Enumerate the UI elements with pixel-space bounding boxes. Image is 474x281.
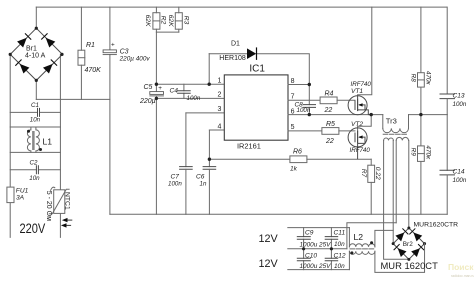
svg-text:R3: R3 xyxy=(182,16,189,25)
wire top output to L2 winding 1 xyxy=(348,228,350,247)
wire C5 bottom lead xyxy=(155,96,157,99)
thermistor NTC1 body xyxy=(54,190,65,214)
wire Br1 top vertex to rail xyxy=(35,7,37,28)
capacitor C14 plates xyxy=(440,170,455,175)
svg-text:C9: C9 xyxy=(305,230,314,237)
svg-text:C4: C4 xyxy=(170,88,179,95)
svg-text:Поиск: Поиск xyxy=(448,262,474,272)
wire L2 winding2 right to Br2 right vertex xyxy=(375,244,425,273)
wire D1 cathode to pin8 riser xyxy=(256,54,309,85)
svg-text:C2: C2 xyxy=(30,159,38,166)
wire pin3 line xyxy=(186,112,224,114)
svg-text:5 - 20 Ом: 5 - 20 Ом xyxy=(45,191,52,221)
wire secondary leg C center tap xyxy=(395,140,397,222)
wire C3 column top xyxy=(109,7,111,50)
capacitor C13 plates xyxy=(440,94,455,99)
wire pin6 VS mid line xyxy=(288,114,383,116)
svg-text:1000u 25V: 1000u 25V xyxy=(300,241,332,248)
wire pin8 line xyxy=(288,84,309,86)
svg-text:+: + xyxy=(158,85,162,92)
svg-text:470K: 470K xyxy=(85,67,102,74)
svg-text:C7: C7 xyxy=(171,173,180,180)
wire 12V middle output xyxy=(288,248,347,250)
svg-text:4-10 A: 4-10 A xyxy=(25,53,46,60)
wire R9 column xyxy=(420,115,422,215)
capacitor C9 leads xyxy=(303,228,305,249)
wire bottom minus rail xyxy=(110,213,447,215)
svg-text:C13: C13 xyxy=(453,92,465,99)
wire D1 anode xyxy=(209,53,247,55)
svg-text:470к: 470к xyxy=(424,145,431,160)
transistor VT2 xyxy=(348,128,367,159)
Br2 diode top-left xyxy=(395,233,404,242)
svg-text:R2: R2 xyxy=(159,16,166,25)
wire VT2 source to R7 xyxy=(370,159,372,165)
svg-text:22: 22 xyxy=(325,138,334,145)
svg-text:C5: C5 xyxy=(144,84,153,91)
svg-text:10n: 10n xyxy=(334,263,345,270)
wire C6 to rail xyxy=(208,169,210,214)
svg-text:VT1: VT1 xyxy=(351,88,363,95)
capacitor C4 plates xyxy=(178,91,191,94)
capacitor C6 plates xyxy=(203,167,216,170)
svg-text:100n: 100n xyxy=(453,177,467,184)
svg-text:5: 5 xyxy=(291,124,295,131)
svg-text:62K: 62K xyxy=(167,15,174,28)
wire C13/C14 column top xyxy=(446,7,448,94)
svg-text:220µ 400v: 220µ 400v xyxy=(119,56,151,63)
wire pin5 line to R5 xyxy=(288,130,322,132)
svg-text:3: 3 xyxy=(218,106,222,113)
wire top +DC rail xyxy=(36,6,447,8)
inductor L1 right winding xyxy=(36,127,40,152)
svg-text:220V: 220V xyxy=(20,221,46,236)
svg-text:C6: C6 xyxy=(196,173,205,180)
svg-text:C10: C10 xyxy=(305,252,317,259)
svg-text:7: 7 xyxy=(291,94,295,101)
transformer Tr3 primary leads xyxy=(383,115,409,129)
svg-text:Tr3: Tr3 xyxy=(386,117,397,126)
svg-text:12V: 12V xyxy=(259,258,279,270)
wire R1 top lead xyxy=(80,7,82,50)
inductor L2 winding 1 xyxy=(349,244,375,247)
svg-text:470к: 470к xyxy=(424,71,431,86)
capacitor C10 leads xyxy=(303,249,305,270)
wire secondary leg D to Br2 top vertex xyxy=(408,140,410,228)
wire pin7 line to R4 xyxy=(288,99,320,101)
svg-text:1n: 1n xyxy=(200,180,207,187)
transformer Tr3 secondary winding 2 xyxy=(396,137,408,140)
wire half-bridge node down to VT2 drain xyxy=(358,115,372,131)
wire CT node to C6 xyxy=(208,159,210,166)
capacitor C5 plates xyxy=(150,92,164,96)
capacitor C7 plates xyxy=(180,167,193,170)
svg-text:L2: L2 xyxy=(354,232,364,242)
capacitor C3 plates xyxy=(103,50,116,55)
svg-text:10n: 10n xyxy=(334,241,345,248)
capacitor C10 plates xyxy=(297,258,310,261)
inductor L2 core xyxy=(350,248,374,250)
wire C14 top lead xyxy=(446,115,448,171)
resistor R4 body xyxy=(320,97,337,104)
svg-text:10n: 10n xyxy=(29,175,40,182)
thermistor NTC1 diagonal xyxy=(49,187,69,214)
wire R6 left lead xyxy=(209,158,290,160)
svg-text:3A: 3A xyxy=(16,195,25,202)
wire pin1 riser to D1 xyxy=(208,54,210,84)
svg-text:4: 4 xyxy=(218,123,222,130)
svg-text:R5: R5 xyxy=(326,121,335,128)
wire R5 to VT2 gate xyxy=(339,130,355,132)
wire R1 bottom lead xyxy=(80,65,82,99)
wire L2 winding2 left to bottom output xyxy=(348,251,350,269)
resistor R7 body xyxy=(368,165,375,182)
svg-text:220µ: 220µ xyxy=(139,98,156,105)
bridge Br1 xyxy=(10,28,62,80)
wire mid line right part xyxy=(409,114,448,116)
wire R3 leads xyxy=(178,7,180,32)
wire R6 right to VT2 source node xyxy=(307,158,371,160)
node Br1 AC2 column xyxy=(59,54,61,237)
svg-text:C11: C11 xyxy=(334,230,346,237)
svg-text:radioloc.man.ru: radioloc.man.ru xyxy=(451,274,474,278)
svg-text:Br2: Br2 xyxy=(403,241,413,248)
wire 12V bottom output xyxy=(288,269,350,271)
svg-text:L1: L1 xyxy=(43,137,53,147)
Br1 diode top-left xyxy=(17,38,27,48)
diode D1 xyxy=(247,48,256,59)
wire secondary leg A xyxy=(384,140,409,259)
resistor R5 body xyxy=(322,128,339,135)
svg-text:100n: 100n xyxy=(297,107,311,114)
wire 12V top output xyxy=(288,227,350,229)
capacitor C12 leads xyxy=(330,249,332,270)
wire pin3 column to C7 xyxy=(185,113,187,167)
svg-text:+: + xyxy=(111,42,115,49)
wire C3 column bottom to rail corner xyxy=(109,55,111,215)
svg-text:22: 22 xyxy=(324,107,333,114)
capacitor C8 plates xyxy=(303,105,315,108)
capacitor C8 leads xyxy=(308,85,310,115)
inductor L1 top link xyxy=(10,126,60,128)
node dots output xyxy=(27,83,423,255)
svg-text:8: 8 xyxy=(291,78,295,85)
svg-text:NTC1: NTC1 xyxy=(64,192,71,210)
node Br1 AC1 column xyxy=(9,54,11,237)
svg-text:10n: 10n xyxy=(30,116,41,123)
op-amp IC1 box (IR2161) xyxy=(224,75,288,140)
svg-text:C14: C14 xyxy=(453,169,465,176)
fuse FU1 body xyxy=(7,187,14,203)
capacitor C4 leads xyxy=(183,84,185,98)
wire pin2 line xyxy=(156,97,224,99)
resistor R1 body xyxy=(78,50,85,65)
resistor R9 body xyxy=(418,146,425,162)
inductor L1 core lines xyxy=(33,132,34,150)
svg-text:1: 1 xyxy=(218,78,222,85)
wire secondary leg B to Br2 left vertex xyxy=(392,140,394,243)
svg-text:C3: C3 xyxy=(120,48,129,55)
svg-text:R9: R9 xyxy=(410,148,417,157)
resistor R2 body xyxy=(153,13,160,30)
wire pin4 column xyxy=(208,130,210,159)
svg-text:100n: 100n xyxy=(187,95,201,102)
svg-text:100n: 100n xyxy=(168,180,182,187)
svg-text:IC1: IC1 xyxy=(249,63,265,74)
Br2 diode top-right xyxy=(413,233,422,242)
svg-text:R6: R6 xyxy=(293,149,302,156)
svg-text:100n: 100n xyxy=(453,101,467,108)
wire R2 leads xyxy=(155,7,157,32)
wire L2 winding1 right to Br2 left vertex xyxy=(375,230,393,247)
svg-text:R8: R8 xyxy=(410,74,417,83)
resistor R3 body xyxy=(175,13,182,30)
transistor VT1 xyxy=(348,95,371,115)
watermark xyxy=(448,262,474,278)
wire C7 to rail xyxy=(185,169,187,214)
VT1 source arrow xyxy=(358,103,362,106)
svg-text:HER108: HER108 xyxy=(219,55,246,62)
svg-text:C1: C1 xyxy=(31,102,39,109)
wire pin4 line xyxy=(209,129,224,131)
Br2 diode bottom-left xyxy=(398,248,407,257)
wire R4 to VT1 gate xyxy=(337,99,355,101)
capacitor C12 plates xyxy=(325,258,338,261)
resistor R8 body xyxy=(418,73,425,87)
svg-text:6: 6 xyxy=(291,109,295,116)
VT2 source arrow xyxy=(358,135,362,138)
wire minus link to C3 column xyxy=(36,98,110,100)
wire C14 bottom to rail xyxy=(446,175,448,214)
svg-text:Br1: Br1 xyxy=(26,46,37,53)
transformer Tr3 secondary winding 1 xyxy=(384,138,394,140)
node dots Br2 vertices xyxy=(392,226,426,260)
capacitor C11 plates xyxy=(325,237,338,240)
svg-text:MUR 1620CT: MUR 1620CT xyxy=(381,260,439,271)
capacitor C9 plates xyxy=(297,237,310,240)
capacitor C11 leads xyxy=(330,228,332,249)
svg-text:D1: D1 xyxy=(231,41,240,48)
wire Br1 minus vertex down xyxy=(35,80,37,99)
capacitor C2 inline plates xyxy=(10,169,60,171)
wire R2/R3 join xyxy=(156,31,178,33)
svg-text:2: 2 xyxy=(218,92,222,99)
svg-text:R4: R4 xyxy=(325,91,334,98)
Br2 diode bottom-right xyxy=(411,248,420,257)
svg-text:VT2: VT2 xyxy=(351,121,363,128)
svg-text:0.22: 0.22 xyxy=(374,167,381,180)
wire VT1 drain to top rail xyxy=(358,7,372,95)
Br1 diode bottom-left xyxy=(20,64,30,74)
wire C5 column to ground rail xyxy=(155,98,157,214)
svg-text:R7: R7 xyxy=(360,169,367,178)
capacitor C1 inline plates xyxy=(10,111,60,113)
svg-text:R1: R1 xyxy=(86,42,95,49)
wire R7 to rail xyxy=(370,182,372,214)
inductor L2 winding 2 xyxy=(349,251,375,254)
svg-text:1000u 25V: 1000u 25V xyxy=(300,263,332,270)
svg-text:C12: C12 xyxy=(334,252,346,259)
inductor L1 left winding xyxy=(27,127,31,152)
svg-text:IRF740: IRF740 xyxy=(350,147,371,154)
node dots Br1 vertices xyxy=(9,27,64,82)
transformer Tr3 primary winding xyxy=(383,128,409,132)
wire pin1 line xyxy=(156,83,224,85)
inductor L1 bottom link xyxy=(10,151,60,153)
svg-text:IR2161: IR2161 xyxy=(237,142,261,151)
svg-text:FU1: FU1 xyxy=(16,188,29,195)
Br1 diode top-right xyxy=(46,38,56,48)
wire R8 column xyxy=(420,7,422,115)
bridge Br2 xyxy=(393,228,424,259)
transformer Tr3 core xyxy=(383,133,406,135)
svg-text:MUR1620CTR: MUR1620CTR xyxy=(414,222,459,229)
Br1 diode bottom-right xyxy=(43,64,53,74)
svg-text:12V: 12V xyxy=(259,233,279,245)
input terminal arrows 220V xyxy=(61,218,72,228)
resistor R6 body xyxy=(290,156,307,163)
wire center tap to middle rail xyxy=(347,223,396,249)
svg-text:62K: 62K xyxy=(144,15,151,28)
wire VCC column to C5 xyxy=(155,32,157,92)
wire C13 bottom to mid node xyxy=(446,99,448,115)
svg-text:1k: 1k xyxy=(290,165,298,172)
